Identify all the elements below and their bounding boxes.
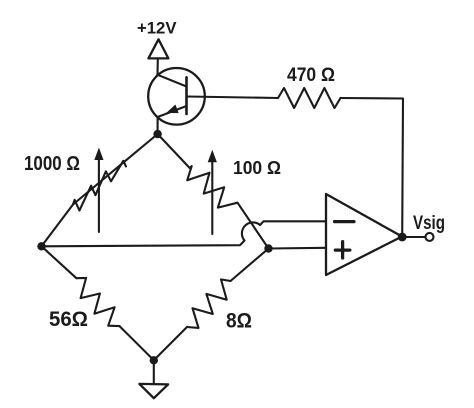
svg-text:Vsig: Vsig	[413, 212, 445, 234]
svg-text:470 Ω: 470 Ω	[287, 64, 335, 86]
svg-text:56Ω: 56Ω	[49, 308, 88, 331]
svg-text:+12V: +12V	[137, 19, 177, 38]
svg-text:8Ω: 8Ω	[226, 309, 252, 333]
svg-text:1000 Ω: 1000 Ω	[24, 153, 80, 175]
svg-text:100 Ω: 100 Ω	[233, 158, 281, 178]
